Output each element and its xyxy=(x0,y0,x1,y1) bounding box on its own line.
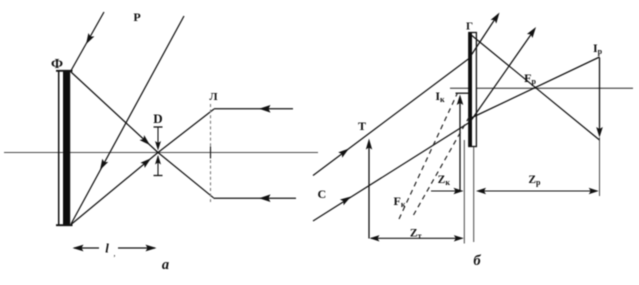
extension line below hologram (right) xyxy=(473,147,475,242)
Ik tip tie bar xyxy=(456,92,471,94)
reference ray P long (to plate bottom) xyxy=(71,16,184,224)
reconstruction ray C2 incoming xyxy=(313,122,470,221)
dimension l: right segment and arrow xyxy=(118,247,155,249)
object ray: plate top to point D xyxy=(71,72,159,153)
object ray: point D to lens upper bend xyxy=(158,109,214,153)
svg-text:Г: Г xyxy=(466,21,473,33)
object arrow T xyxy=(368,145,370,239)
optical axis (diagram a) xyxy=(4,152,318,154)
photographic plate F (thick emulsion bar) xyxy=(63,71,70,226)
svg-text:Ф: Ф xyxy=(51,57,63,72)
dimension Zt xyxy=(371,237,462,239)
svg-text:Zр: Zр xyxy=(528,174,541,187)
svg-text:Л: Л xyxy=(209,91,218,103)
object ray: point D to lens lower bend xyxy=(158,153,214,198)
hologram G outline xyxy=(469,33,477,147)
svg-text:Fр: Fр xyxy=(524,71,536,86)
svg-text:,: , xyxy=(114,249,116,258)
svg-text:а: а xyxy=(162,257,169,273)
svg-text:Zт: Zт xyxy=(410,228,422,241)
dimension l: left segment and arrow xyxy=(74,247,99,249)
Ip extension line xyxy=(599,138,601,197)
image ray: hologram top to real image bottom xyxy=(470,34,600,140)
reconstruction ray C1 incoming xyxy=(313,59,469,176)
dashed ray from Fk to hologram xyxy=(414,116,471,216)
reference ray P short (to plate top) xyxy=(71,12,105,72)
svg-text:Т: Т xyxy=(358,119,366,133)
real image arrow Ip xyxy=(599,58,601,132)
extension line below hologram (left) xyxy=(463,140,465,244)
svg-text:l: l xyxy=(105,241,109,256)
point D aperture marker lower tie xyxy=(155,155,161,165)
dimension Zp xyxy=(478,190,596,192)
svg-text:Iр: Iр xyxy=(593,41,603,56)
diffracted ray C1 outgoing xyxy=(469,15,498,59)
plate bottom cap xyxy=(56,224,73,226)
svg-text:С: С xyxy=(317,187,326,201)
dimension Zk xyxy=(431,190,456,192)
optical axis (diagram b) xyxy=(450,87,633,89)
diffracted ray C2 outgoing xyxy=(470,30,535,123)
hologram G thick left edge xyxy=(468,33,472,147)
svg-text:Fк: Fк xyxy=(394,194,406,209)
dashed ray from Fk to Ik tip xyxy=(399,93,458,219)
image ray: hologram to real image top through Fp xyxy=(470,57,600,119)
svg-text:D: D xyxy=(153,111,162,126)
lower horizontal beam from lens xyxy=(214,197,297,199)
lens L dashed line xyxy=(210,104,212,202)
point D aperture marker upper tie xyxy=(154,126,163,128)
photographic plate F (thin left edge) xyxy=(58,71,60,226)
axis tick at lens xyxy=(210,147,212,159)
object ray: plate bottom to point D xyxy=(71,153,158,225)
plate top cap xyxy=(56,70,73,72)
svg-text:Iк: Iк xyxy=(435,89,445,104)
svg-text:б: б xyxy=(473,253,481,269)
svg-text:Р: Р xyxy=(133,10,140,24)
upper horizontal beam from lens xyxy=(214,108,293,110)
virtual image arrow Ik xyxy=(459,102,461,190)
svg-text:Zк: Zк xyxy=(438,174,451,187)
